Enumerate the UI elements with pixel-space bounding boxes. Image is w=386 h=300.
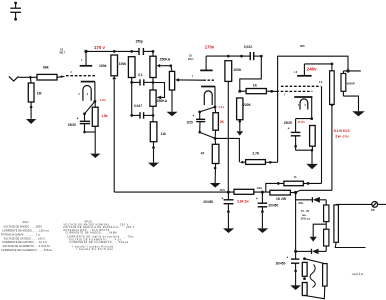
transformer PT primary winding bbox=[334, 204, 372, 247]
node rectifier output B+ bbox=[294, 191, 297, 194]
svg-text:VOLTAJE DE CATODO ....... 160: VOLTAJE DE CATODO ....... 160 V bbox=[4, 237, 46, 240]
svg-text:6SL7: 6SL7 bbox=[23, 221, 30, 224]
tube V1 1/2 6SL7 bbox=[60, 50, 96, 102]
svg-text:100K: 100K bbox=[233, 68, 242, 72]
capacitor C 250p bbox=[136, 40, 153, 55]
svg-text:VOLTAJE DE REGILLA DE PANTALLA: VOLTAJE DE REGILLA DE PANTALLA ..... 250… bbox=[63, 226, 135, 229]
svg-text:250KA: 250KA bbox=[160, 58, 171, 62]
resistor R cathode V3 bbox=[310, 126, 316, 151]
svg-text:20/450: 20/450 bbox=[268, 203, 278, 207]
node humdinger center bbox=[303, 277, 306, 280]
node spec text 6SL7 bbox=[1, 221, 52, 252]
resistor R 1,5k cathode V1 bbox=[92, 101, 107, 132]
svg-text:POTENCIA W.MAX ............. 1: POTENCIA W.MAX ............. 1 w. bbox=[1, 233, 41, 236]
svg-text:1,1v: 1,1v bbox=[218, 105, 224, 109]
svg-text:25/25: 25/25 bbox=[68, 123, 76, 127]
potentiometer R 250KA (R5) bbox=[150, 90, 168, 122]
svg-text:7k: 7k bbox=[294, 176, 297, 179]
svg-text:6P6: 6P6 bbox=[300, 44, 305, 48]
wire cap bottom diagonal to NFB node bbox=[200, 132, 215, 138]
node R1 wiper arrow bbox=[112, 76, 116, 79]
svg-text:VOLTAJE DE FILAMENTO.......4,3: VOLTAJE DE FILAMENTO.......4,3v bbox=[69, 238, 122, 241]
svg-text:1/2: 1/2 bbox=[189, 56, 193, 58]
svg-text:+: + bbox=[286, 255, 288, 259]
node reservoir bbox=[294, 250, 297, 253]
svg-text:VOLTAJE DE ANODO .......300V: VOLTAJE DE ANODO .......300V bbox=[4, 226, 43, 229]
svg-text:2: 2 bbox=[71, 71, 73, 74]
svg-text:CORRIENTE DE regilla de pantal: CORRIENTE DE regilla de pantalla...... 7… bbox=[67, 236, 134, 239]
svg-text:5-8: 5-8 bbox=[319, 82, 323, 84]
wire R6 down to B+ bus bbox=[227, 81, 229, 192]
svg-text:I catodo/ I anodon Pentodo: I catodo/ I anodon Pentodo bbox=[73, 245, 114, 248]
wire g2 drop to screen feed bbox=[321, 86, 323, 183]
svg-text:170 v: 170 v bbox=[94, 45, 106, 50]
transformer OT primary bbox=[330, 64, 335, 190]
diode D1 bbox=[296, 197, 327, 205]
svg-text:+: + bbox=[288, 127, 290, 131]
svg-text:1,5k: 1,5k bbox=[101, 114, 107, 118]
ground G3 under 11k bbox=[148, 163, 159, 168]
potentiometer R 250KA (vol R4) bbox=[169, 66, 203, 112]
svg-text:6SL7: 6SL7 bbox=[60, 53, 66, 55]
resistor R 7k screen bbox=[284, 176, 322, 186]
node spec text 6P6S bbox=[63, 222, 135, 251]
wire screen feed line bbox=[266, 183, 284, 192]
ground G8 speaker bbox=[352, 111, 365, 116]
wire HV center tap bbox=[325, 222, 327, 230]
svg-text:170v: 170v bbox=[205, 45, 215, 50]
resistor R 100K plate V2 (R6) bbox=[227, 55, 230, 58]
svg-text:+: + bbox=[193, 114, 195, 118]
svg-text:Lamp 6,3v: Lamp 6,3v bbox=[352, 273, 364, 276]
svg-text:240v: 240v bbox=[307, 67, 317, 72]
ground G9 center tap bbox=[310, 237, 317, 242]
node speaker hot bbox=[343, 70, 360, 72]
svg-text:0,1: 0,1 bbox=[138, 73, 143, 77]
svg-text:220v ca: 220v ca bbox=[301, 218, 311, 221]
capacitor C 25/25 cathode V1 bbox=[68, 114, 90, 134]
svg-text:VOLTAJE DE FILAMENTO..... 6,3/: VOLTAJE DE FILAMENTO..... 6,3/12,6v bbox=[3, 245, 51, 248]
svg-text:5600R: 5600R bbox=[347, 82, 355, 86]
resistor R 220K grid leak bbox=[237, 98, 252, 131]
wire plate rail stage1 bbox=[86, 50, 139, 52]
node NFB junction bbox=[214, 137, 217, 140]
svg-text:11k: 11k bbox=[161, 132, 167, 136]
svg-text:7: 7 bbox=[192, 76, 194, 79]
potentiometer R 250KA (tone R3) bbox=[150, 51, 172, 77]
svg-text:910/910: 910/910 bbox=[334, 129, 350, 133]
wire B+ bus bbox=[114, 191, 234, 193]
svg-text:20/450: 20/450 bbox=[276, 262, 286, 266]
svg-text:1/2: 1/2 bbox=[60, 50, 64, 52]
svg-text:6SL7: 6SL7 bbox=[188, 59, 194, 61]
transformer filament winding bbox=[305, 259, 328, 299]
svg-text:4: 4 bbox=[298, 104, 300, 107]
svg-text:2K: 2K bbox=[220, 120, 225, 124]
wire volume wiper to V2 grid (shielded dashes) bbox=[204, 79, 216, 81]
wire cathode bottom join bbox=[85, 131, 96, 133]
node rail right / vol top bbox=[152, 50, 155, 53]
svg-text:CORRIENTE DE FILAMENTO........: CORRIENTE DE FILAMENTO........ 370ma bbox=[1, 249, 52, 252]
wire speaker return to ground bbox=[343, 96, 358, 111]
node 0.047 left bbox=[130, 114, 133, 117]
wire 0,022 to 1K/220K node bbox=[240, 56, 261, 91]
resistor R 1M bbox=[28, 83, 34, 102]
svg-text:2/25: 2/25 bbox=[187, 120, 193, 124]
svg-text:47: 47 bbox=[201, 151, 205, 155]
ground G5 under 220K (arrow) bbox=[236, 131, 243, 135]
svg-text:220K: 220K bbox=[243, 103, 252, 107]
node V1 cathode bbox=[94, 100, 97, 103]
node R2 bottom bbox=[130, 81, 133, 84]
wire cathode diagonal to cap 2/25 bbox=[200, 107, 215, 112]
capacitor C 25/25 cathode V3 bbox=[284, 119, 312, 151]
node tone bottom bbox=[152, 81, 155, 84]
resistor R 2,7K NFB bbox=[243, 152, 277, 165]
svg-text:100k: 100k bbox=[99, 64, 107, 68]
svg-text:250p: 250p bbox=[136, 40, 143, 44]
ground G12 reservoir bbox=[290, 285, 301, 290]
svg-text:+: + bbox=[256, 197, 258, 201]
svg-text:CORRIENTE DE ANODO ..... 54MA: CORRIENTE DE ANODO ..... 54MA bbox=[66, 232, 118, 235]
svg-text:1M: 1M bbox=[37, 92, 42, 96]
svg-text:3,9k 2w: 3,9k 2w bbox=[237, 199, 249, 203]
input jack J1 bbox=[9, 76, 19, 81]
transformer PT HV winding lower bbox=[324, 229, 329, 246]
svg-text:17,5v: 17,5v bbox=[297, 120, 305, 124]
svg-text:+: + bbox=[222, 197, 224, 201]
resistor R 2K cathode V2 bbox=[213, 107, 225, 138]
svg-text:6P6S: 6P6S bbox=[85, 222, 93, 224]
ground G6 under 47 bbox=[210, 183, 221, 188]
svg-text:250KA: 250KA bbox=[157, 99, 168, 103]
transformer PT HV winding upper bbox=[324, 205, 329, 222]
resistor R 1K grid stopper bbox=[240, 84, 276, 94]
svg-text:ma,: ma, bbox=[302, 214, 307, 217]
tube V3 6P6S output pentode bbox=[276, 44, 333, 118]
node input/1M junction bbox=[29, 76, 32, 79]
svg-text:1K 2W: 1K 2W bbox=[276, 197, 287, 201]
svg-text:220: 220 bbox=[371, 210, 376, 212]
wire 68k to grid V1 bbox=[57, 75, 65, 78]
resistor R 11k bbox=[150, 122, 166, 163]
capacitor C 0,022 bbox=[240, 45, 263, 60]
capacitor C 20/450 reservoir bbox=[276, 251, 300, 285]
svg-text:260v: 260v bbox=[298, 202, 304, 205]
ground G4 under R4 bbox=[167, 112, 178, 116]
svg-text:5: 5 bbox=[305, 105, 307, 107]
svg-text:0,022: 0,022 bbox=[244, 45, 252, 49]
wire input to 68k bbox=[19, 76, 38, 78]
wire cathode RC bottom bbox=[296, 149, 313, 151]
capacitor C 0,1 bbox=[132, 73, 153, 86]
svg-text:68k: 68k bbox=[43, 66, 49, 70]
svg-text:1K: 1K bbox=[253, 84, 258, 88]
svg-text:4: 4 bbox=[78, 93, 80, 96]
wire NFB riser to speaker line bbox=[278, 56, 348, 162]
ground G11 cap B bbox=[257, 228, 268, 233]
capacitor C-iso top-left bbox=[10, 2, 21, 21]
tube V2 1/2 6SL7 bbox=[188, 56, 215, 107]
svg-text:20/450: 20/450 bbox=[203, 200, 213, 204]
wire zigzag to R5 wiper bbox=[153, 83, 165, 98]
svg-text:230v: 230v bbox=[257, 187, 263, 190]
svg-text:7: 7 bbox=[284, 94, 286, 97]
resistor R 5600R speaker load bbox=[341, 71, 355, 96]
resistor R 100k (R2) bbox=[130, 50, 133, 53]
node V2 cathode bbox=[214, 106, 217, 109]
svg-text:POTENCIA MAX....12,5 WATTS: POTENCIA MAX....12,5 WATTS bbox=[64, 229, 110, 232]
svg-text:0.047: 0.047 bbox=[134, 104, 142, 108]
ground G10 cap A bbox=[223, 228, 234, 233]
resistor R humdinger 2 bbox=[302, 283, 307, 296]
fuse F1 mains bbox=[371, 202, 386, 212]
resistor R 1K 2W bbox=[270, 190, 296, 201]
diode D2 bbox=[296, 246, 327, 254]
wire rectifier column bbox=[295, 193, 297, 252]
svg-text:CORRIENTE DE ANODO....... 1,30: CORRIENTE DE ANODO....... 1,30 m.a bbox=[2, 230, 49, 233]
svg-text:CORRIENTE DE FILAMENTO .... 54: CORRIENTE DE FILAMENTO .... 540ma bbox=[70, 241, 129, 244]
svg-text:CORRIENTE DE CATODO...... 10 m: CORRIENTE DE CATODO...... 10 md bbox=[2, 241, 47, 244]
capacitor C 0.047 bbox=[132, 104, 155, 119]
svg-text:TV - 90: TV - 90 bbox=[301, 210, 310, 213]
wire R1 down to B+ bus bbox=[113, 79, 115, 192]
ground G7 V3 cathode bbox=[306, 164, 318, 169]
ground G2 V1 cathode bbox=[90, 154, 100, 158]
svg-text:I catodon 5to Pol/Triodo: I catodon 5to Pol/Triodo bbox=[77, 248, 114, 251]
resistor R 68k bbox=[37, 74, 57, 80]
node grid stopper junction bbox=[238, 90, 241, 93]
wire OT primary return bbox=[296, 190, 332, 192]
resistor R 100k (R1) bbox=[113, 50, 116, 53]
svg-text:3: 3 bbox=[87, 93, 89, 96]
svg-text:25/25: 25/25 bbox=[284, 121, 292, 125]
node 170v plate V1 bbox=[84, 50, 87, 53]
wire NFB to 2,7K bbox=[215, 138, 239, 162]
svg-text:100k: 100k bbox=[119, 62, 127, 66]
ground G1 under 1M bbox=[26, 119, 36, 124]
resistor R humdinger 1 bbox=[302, 257, 307, 276]
resistor R 3,9k 2w bbox=[234, 187, 270, 203]
svg-text:VOLTAJE DE ANODO NOMINAL......: VOLTAJE DE ANODO NOMINAL........ 250 V bbox=[64, 224, 129, 227]
svg-text:2w c/u: 2w c/u bbox=[335, 134, 349, 138]
node V3 cathode bbox=[310, 117, 313, 120]
svg-text:1: 1 bbox=[81, 59, 83, 62]
svg-text:440v: 440v bbox=[220, 189, 226, 192]
resistor R 47 bbox=[201, 138, 219, 183]
wire cathode diagonal to cap bbox=[85, 101, 95, 113]
capacitor C 20/450 (B) bbox=[256, 192, 278, 228]
svg-text:1,2v: 1,2v bbox=[100, 98, 106, 102]
svg-text:2,7K: 2,7K bbox=[252, 152, 260, 156]
svg-text:+: + bbox=[77, 117, 79, 121]
svg-text:1-6: 1-6 bbox=[294, 72, 298, 74]
capacitor C 20/450 (A) bbox=[203, 192, 233, 228]
capacitor C 2/25 bbox=[187, 112, 206, 134]
